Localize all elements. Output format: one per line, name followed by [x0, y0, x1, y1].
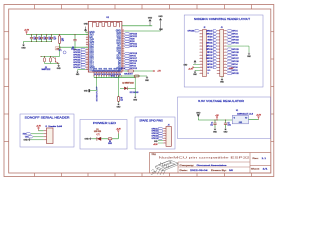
power flag +5V right	[153, 70, 155, 72]
svg-text:GPIO5: GPIO5	[232, 55, 238, 57]
svg-text:NodeMCU pin compatible ESP32: NodeMCU pin compatible ESP32	[159, 155, 251, 159]
bottom pins bus wire	[94, 77, 135, 79]
svg-text:IW: IW	[229, 170, 233, 172]
capacitor C2	[36, 35, 38, 38]
wire EN to module	[60, 46, 89, 48]
svg-text:Sheet:: Sheet:	[251, 167, 260, 170]
svg-text:16: 16	[86, 68, 88, 70]
regulator input wire	[198, 119, 232, 121]
svg-text:+3.3V: +3.3V	[229, 68, 235, 70]
svg-text:GPIO17: GPIO17	[206, 55, 212, 57]
svg-text:10: 10	[86, 53, 88, 55]
svg-text:GPIO4: GPIO4	[207, 61, 212, 63]
svg-text:33: 33	[122, 42, 124, 44]
pcb perspective sketch logo	[151, 160, 178, 175]
svg-text:GPIO15: GPIO15	[232, 73, 239, 75]
svg-text:36: 36	[122, 35, 124, 37]
J3 middle labels	[213, 30, 217, 32]
svg-text:10u: 10u	[210, 124, 213, 126]
svg-text:Grommet Associates: Grommet Associates	[197, 164, 227, 167]
svg-text:GPIO2: GPIO2	[232, 70, 238, 72]
svg-text:J1: J1	[45, 126, 47, 128]
J4 labels	[159, 127, 163, 129]
resistor R8	[118, 96, 120, 97]
module bottom pins	[94, 72, 119, 76]
svg-text:R6: R6	[109, 141, 111, 143]
svg-text:TITLE:: TITLE:	[152, 154, 157, 156]
svg-text:3.3V VOLTAGE REGULATOR: 3.3V VOLTAGE REGULATOR	[198, 100, 244, 103]
capacitor C8	[225, 120, 227, 123]
ground Q1 emitter	[58, 64, 60, 65]
connector J1	[47, 128, 54, 144]
svg-text:2022-09-04: 2022-09-04	[190, 170, 209, 172]
svg-text:11: 11	[86, 56, 88, 58]
svg-text:Q2 MMBT2222: Q2 MMBT2222	[122, 82, 134, 84]
sheet border frame	[4, 5, 274, 177]
lower rail	[45, 63, 60, 65]
svg-text:38: 38	[122, 30, 124, 32]
svg-text:TXD0: TXD0	[208, 37, 212, 39]
3.3V rail wire	[27, 34, 89, 36]
diode D2	[120, 87, 124, 89]
capacitor C4	[46, 35, 48, 38]
caps bottom wire	[24, 41, 52, 43]
svg-text:Date:: Date:	[180, 169, 189, 172]
svg-text:Rev:: Rev:	[253, 158, 260, 160]
svg-text:GPIO19: GPIO19	[232, 49, 239, 51]
svg-text:GND: GND	[196, 112, 201, 114]
svg-text:27: 27	[122, 57, 124, 59]
ground J1 pin4	[31, 139, 44, 141]
svg-text:GPIO17: GPIO17	[232, 58, 239, 60]
svg-text:+3.3V: +3.3V	[256, 114, 262, 116]
power flag +3.3V rail	[26, 33, 28, 35]
svg-text:GPIO19: GPIO19	[206, 46, 212, 48]
regulator output wire	[249, 119, 259, 121]
left hierarchical labels	[81, 49, 86, 51]
svg-text:J2: J2	[204, 27, 206, 29]
svg-text:13: 13	[207, 73, 209, 75]
svg-text:GPIO18: GPIO18	[232, 52, 239, 54]
wire +3.3V to J1	[39, 130, 44, 132]
ground bottom mid	[134, 96, 136, 97]
svg-text:+3.3V: +3.3V	[36, 126, 42, 128]
svg-text:15: 15	[86, 66, 88, 68]
svg-text:31: 31	[122, 47, 124, 49]
power flag +5V regulator	[216, 118, 218, 120]
gnd J3 row6 right	[244, 45, 249, 47]
section box SPARE GPIO PINS	[135, 117, 175, 149]
svg-text:GND: GND	[23, 140, 28, 142]
svg-text:GPIO21: GPIO21	[232, 43, 239, 45]
ground top right 1	[149, 19, 152, 21]
svg-text:SW1 BOOT: SW1 BOOT	[124, 74, 132, 76]
svg-text:GPIO23: GPIO23	[232, 40, 239, 42]
connector J3	[220, 30, 224, 77]
svg-text:SPARE GPIO PINS: SPARE GPIO PINS	[139, 120, 163, 123]
resistor R2	[59, 35, 61, 36]
svg-text:TX0: TX0	[25, 137, 28, 139]
ground below R8	[118, 103, 120, 104]
wire R6 up	[113, 138, 118, 140]
svg-text:32: 32	[122, 45, 124, 47]
svg-text:35: 35	[122, 37, 124, 39]
svg-text:30: 30	[122, 50, 124, 52]
gnd J2 row12	[193, 63, 200, 65]
svg-text:GPIO22: GPIO22	[232, 37, 239, 39]
svg-text:GPIO14: GPIO14	[73, 67, 81, 69]
svg-text:GPIO16: GPIO16	[206, 58, 212, 60]
svg-text:GND: GND	[84, 24, 89, 26]
svg-text:J3: J3	[221, 27, 223, 29]
svg-text:IO0: IO0	[111, 76, 114, 78]
svg-text:GPIO36: GPIO36	[188, 31, 195, 33]
section box NODEMCU COMPATIBLE HEADER LAYOUT	[184, 15, 263, 87]
svg-text:GND: GND	[148, 17, 153, 19]
wire R2 to EN node	[59, 45, 61, 48]
vertical wire to R8	[118, 76, 120, 96]
label RX0	[27, 133, 31, 135]
svg-text:24: 24	[122, 65, 124, 67]
ground boot row	[146, 76, 148, 77]
svg-text:GPIO23: GPIO23	[206, 31, 212, 33]
svg-text:GPIO0: GPIO0	[207, 64, 212, 66]
power flag +3.3V serial	[38, 129, 40, 131]
title block	[150, 153, 271, 174]
ground below caps	[23, 43, 25, 45]
right hierarchical labels lower	[124, 52, 129, 54]
LED D1	[97, 137, 101, 141]
svg-text:25: 25	[122, 62, 124, 64]
power flag +3.3V out	[258, 118, 260, 120]
ground bar bottom left	[88, 89, 90, 92]
svg-text:12k: 12k	[120, 100, 123, 102]
svg-text:C5: C5	[54, 37, 56, 39]
wire led to R6	[101, 138, 107, 140]
svg-text:D2 1N4148: D2 1N4148	[130, 92, 139, 94]
svg-text:NODEMCU COMPATIBLE HEADER LAYO: NODEMCU COMPATIBLE HEADER LAYOUT	[194, 18, 251, 21]
connector J4	[166, 127, 171, 147]
svg-text:13: 13	[86, 61, 88, 63]
connector J2	[203, 30, 207, 77]
svg-text:RXD0: RXD0	[208, 40, 212, 42]
ground below left label column	[78, 69, 86, 71]
label GPIO36 J2 row1	[195, 30, 200, 32]
svg-text:SENSOR_VP: SENSOR_VP	[97, 85, 99, 101]
ground power led	[91, 138, 92, 140]
svg-text:+3.3V: +3.3V	[24, 30, 30, 32]
svg-text:U1: U1	[236, 110, 238, 112]
svg-text:+3.3V: +3.3V	[188, 69, 194, 71]
VIN wire to +5V flag	[124, 70, 127, 72]
svg-text:+3.3V: +3.3V	[116, 128, 122, 130]
label IO0 boot row	[115, 75, 119, 77]
+3.3V J2 row13	[193, 66, 200, 68]
capacitor C7	[214, 120, 216, 123]
module U2 ESP32-WROOM-32 body	[88, 22, 122, 73]
svg-text:R8: R8	[120, 98, 122, 100]
ground module pin1 top-left	[86, 31, 89, 33]
svg-text:SONOFF SERIAL HEADER: SONOFF SERIAL HEADER	[25, 117, 70, 120]
capacitor C3	[41, 35, 43, 38]
ground below C8	[225, 128, 227, 129]
svg-text:GPIO18: GPIO18	[206, 49, 212, 51]
svg-text:29: 29	[122, 52, 124, 54]
svg-text:R7 1k: R7 1k	[121, 68, 125, 70]
svg-text:GPIO5: GPIO5	[207, 52, 212, 54]
resistor R4	[44, 57, 46, 58]
svg-text:GND: GND	[21, 48, 26, 50]
svg-text:34: 34	[122, 40, 124, 42]
transistor circuit wire EN down	[59, 47, 61, 56]
svg-text:GPIO18: GPIO18	[152, 138, 158, 140]
svg-text:GPIO21: GPIO21	[206, 43, 212, 45]
svg-text:GPIO22: GPIO22	[206, 34, 212, 36]
svg-text:MMBT2222: MMBT2222	[42, 69, 51, 71]
svg-text:28: 28	[122, 55, 124, 57]
svg-text:37: 37	[122, 32, 124, 34]
label TX0	[29, 136, 33, 138]
resistor R9	[134, 75, 135, 77]
svg-text:C7: C7	[211, 122, 213, 124]
ground below J3	[221, 77, 223, 78]
svg-text:GPIO2: GPIO2	[207, 67, 212, 69]
svg-text:POWER LED: POWER LED	[93, 122, 116, 125]
capacitor C5	[51, 35, 53, 38]
resistor R6	[107, 138, 108, 140]
svg-text:26: 26	[122, 60, 124, 62]
testpoint circle	[63, 51, 66, 54]
wire module top right y25.8	[122, 25, 152, 27]
regulator U1 body	[232, 115, 248, 123]
svg-text:Drawn By:: Drawn By:	[211, 169, 227, 172]
svg-text:GPIO4: GPIO4	[232, 64, 238, 66]
right hierarchical labels upper	[124, 33, 129, 35]
svg-text:1uF: 1uF	[54, 39, 57, 41]
svg-text:100n: 100n	[228, 124, 232, 126]
capacitor C1	[31, 35, 33, 38]
svg-text:C8: C8	[228, 122, 230, 124]
svg-text:GPIO16: GPIO16	[232, 61, 239, 63]
wire gnd to led	[92, 138, 97, 140]
svg-text:12: 12	[86, 58, 88, 60]
module right pins	[122, 31, 124, 71]
antenna meander	[92, 23, 119, 28]
svg-text:GPIO19: GPIO19	[130, 46, 138, 48]
svg-text:TP1: TP1	[59, 50, 62, 52]
transistor Q1 symbol	[53, 57, 59, 64]
ground top right 2	[159, 18, 162, 20]
svg-text:12k: 12k	[61, 40, 64, 42]
wire module right pin1 y31	[124, 30, 160, 32]
svg-text:AMS1117-3.3: AMS1117-3.3	[237, 112, 253, 115]
section box POWER LED	[80, 120, 127, 150]
svg-text:GND: GND	[158, 16, 163, 18]
section box 3.3V VOLTAGE REGULATOR	[178, 97, 271, 139]
svg-text:RX0: RX0	[23, 134, 26, 136]
svg-text:R2: R2	[61, 38, 63, 40]
resistor R5	[50, 57, 52, 58]
ground below J2	[195, 69, 200, 71]
svg-text:LED RED: LED RED	[94, 131, 102, 133]
C6 to first label wire	[74, 46, 76, 50]
wire IO0 row	[119, 75, 147, 77]
J2 pin name numbers right	[207, 30, 210, 75]
ground below C7	[214, 128, 216, 129]
power flag +3.3V led	[117, 131, 119, 133]
svg-text:Company:: Company:	[180, 165, 195, 167]
module left pins	[86, 32, 88, 69]
J3 right labels	[227, 30, 232, 32]
wire bottom left drop	[96, 78, 98, 91]
section box SONOFF SERIAL HEADER	[20, 114, 74, 147]
transistor circuit rail	[41, 56, 60, 58]
svg-text:J4: J4	[168, 125, 170, 127]
svg-text:GPIO1: GPIO1	[232, 31, 238, 33]
svg-text:GND: GND	[207, 70, 210, 72]
wire bottom right drop	[134, 78, 136, 96]
resistor R7	[127, 70, 128, 72]
svg-text:GPIO3: GPIO3	[232, 34, 238, 36]
capacitor C6	[74, 35, 76, 40]
svg-text:GND: GND	[84, 139, 89, 141]
svg-text:14: 14	[86, 63, 88, 65]
